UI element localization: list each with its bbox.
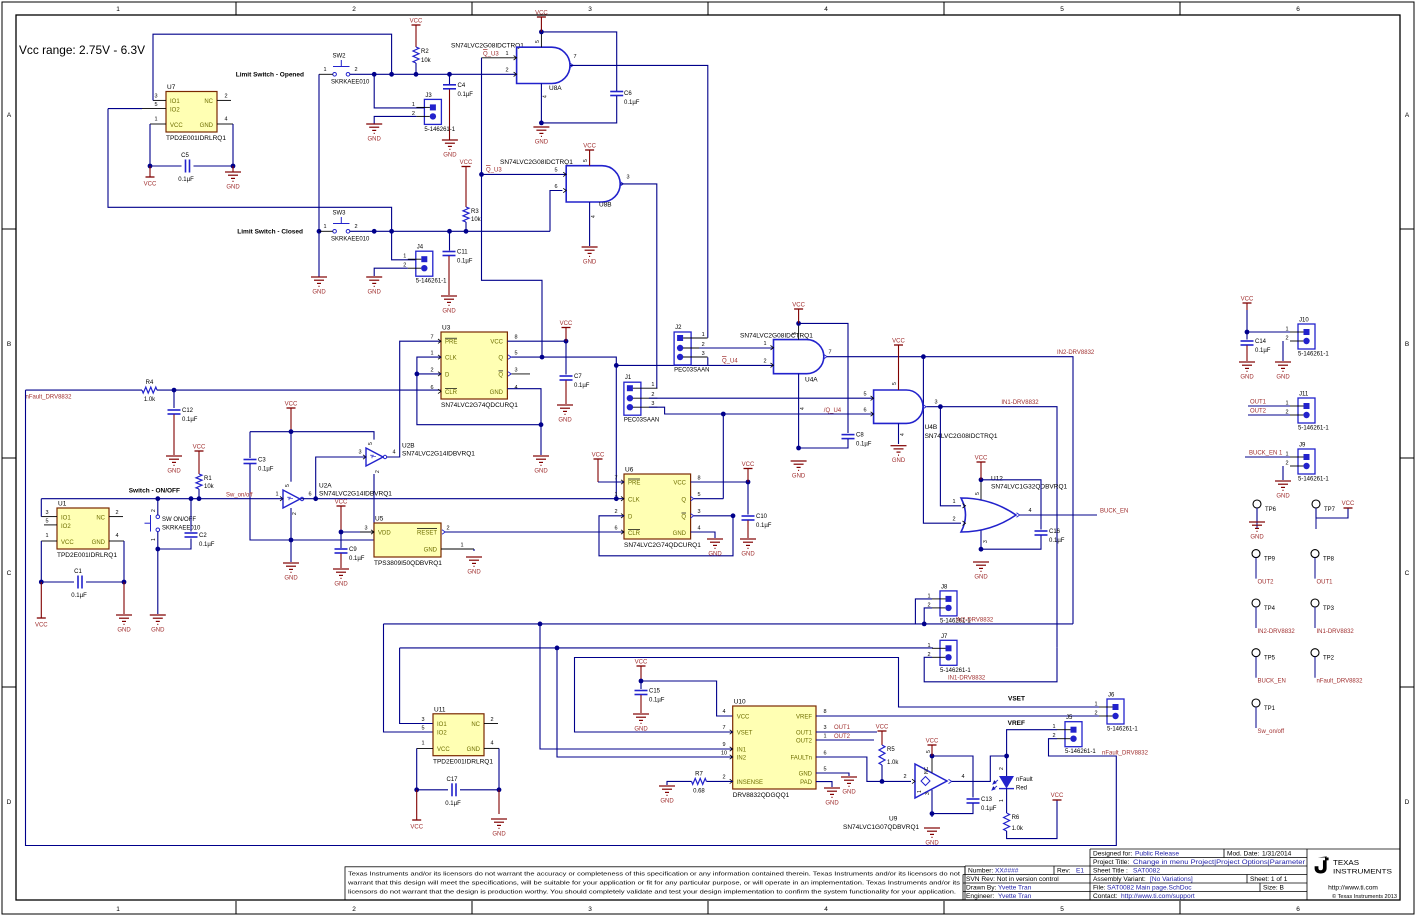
VCC below C17 (412, 819, 421, 821)
svg-text:GND: GND (334, 582, 348, 588)
svg-text:GND: GND (535, 140, 549, 146)
capacitor C2 (185, 533, 198, 537)
svg-text:0.1µF: 0.1µF (574, 383, 590, 389)
svg-text:2: 2 (1285, 336, 1288, 342)
svg-text:U10: U10 (734, 699, 746, 706)
svg-text:Sw_on/off: Sw_on/off (1258, 729, 1285, 735)
wire IN1-DRV8832 (927, 407, 1058, 648)
wire OUT1 to J11 (1248, 405, 1290, 407)
svg-text:Designed for:: Designed for: (1093, 851, 1132, 858)
VCC (337, 505, 346, 507)
resistor R2 (413, 47, 419, 63)
ground at TP6 (1249, 522, 1265, 531)
svg-text:Public Release: Public Release (1135, 851, 1179, 858)
wire VCC to U10 VCC pin (641, 681, 733, 716)
svg-text:C7: C7 (574, 374, 582, 380)
VCC above U8B (585, 149, 594, 151)
VCC at TP7 (1344, 507, 1353, 509)
svg-text:Limit Switch - Opened: Limit Switch - Opened (236, 72, 304, 79)
resistor R3 (463, 207, 469, 222)
junction (155, 496, 160, 501)
svg-text:J4: J4 (417, 245, 424, 251)
ground at C1 (116, 615, 132, 624)
svg-text:4: 4 (490, 741, 493, 747)
svg-text:1: 1 (275, 492, 278, 498)
svg-text:Project Title:: Project Title: (1093, 859, 1129, 866)
svg-text:TP6: TP6 (1265, 507, 1277, 513)
wire R7 to gnd (667, 781, 692, 785)
wire C16 to gnd rail (981, 536, 1041, 550)
wire LED cathode to R6 (1006, 789, 1008, 813)
wire C1 right (86, 581, 124, 583)
junction (930, 811, 935, 816)
junction (189, 496, 194, 501)
svg-text:6: 6 (823, 751, 826, 757)
wire J8 pin1 down (915, 599, 932, 624)
wire R5 bottom (881, 765, 883, 781)
svg-text:10: 10 (721, 751, 727, 757)
svg-text:SN74LVC2G14IDBVRQ1: SN74LVC2G14IDBVRQ1 (402, 451, 475, 458)
svg-text:2: 2 (490, 717, 493, 723)
svg-text:A: A (1405, 112, 1410, 119)
svg-text:GND: GND (200, 123, 214, 129)
test point TP4 (1252, 599, 1260, 607)
svg-text:5-146261-1: 5-146261-1 (940, 668, 971, 674)
capacitor C9 (335, 549, 348, 553)
wire SW2 pin1 down to SW3 pin1 (318, 74, 320, 231)
svg-text:Switch - ON/OFF: Switch - ON/OFF (129, 488, 180, 495)
svg-text:Sw_on/off: Sw_on/off (226, 493, 253, 499)
svg-text:NC: NC (96, 516, 105, 522)
svg-text:IO2: IO2 (170, 108, 180, 114)
svg-text:C5: C5 (181, 153, 189, 159)
wire U6 Q vertical (722, 414, 724, 499)
svg-text:J8: J8 (941, 584, 948, 590)
test point TP9 (1252, 550, 1260, 558)
VCC above U8A (537, 16, 546, 18)
VCC at C10 (744, 468, 753, 470)
svg-text:4: 4 (722, 709, 725, 715)
wire VSET to J6 pin1 (575, 658, 1100, 733)
svg-text:Mod. Date:: Mod. Date: (1227, 851, 1259, 858)
wire C3 top (249, 432, 251, 458)
svg-text:6: 6 (1296, 6, 1300, 13)
svg-text:Sheet: 1 of 1: Sheet: 1 of 1 (1250, 876, 1288, 883)
junction (1004, 754, 1009, 759)
junction (746, 480, 751, 485)
ground at U8A (533, 127, 549, 136)
svg-text:5: 5 (1060, 6, 1064, 13)
ground at U5 (466, 557, 482, 566)
wire U3 clk-d-gnd loop (417, 357, 541, 425)
wire J1.2 to U4B.5 (649, 397, 874, 399)
U7 pin stubs (142, 100, 233, 124)
svg-text:0.1µF: 0.1µF (624, 100, 640, 106)
junction (155, 547, 160, 552)
IC U5 (374, 523, 441, 557)
wire to C14 (1246, 332, 1248, 340)
svg-text:Limit Switch - Closed: Limit Switch - Closed (237, 229, 303, 236)
svg-text:CLK: CLK (445, 356, 457, 362)
svg-text:C2: C2 (199, 533, 207, 539)
svg-text:3: 3 (702, 351, 705, 357)
svg-text:U6: U6 (625, 467, 634, 474)
AND gate U8B (566, 166, 620, 202)
wire long row IN1 net (400, 647, 933, 649)
wire C1 to gnd (123, 582, 125, 614)
svg-text:OUT1: OUT1 (1250, 400, 1267, 406)
svg-text:GND: GND (792, 474, 806, 480)
TI logo (1315, 856, 1329, 873)
svg-text:J5: J5 (1066, 715, 1073, 721)
svg-text:INSTRUMENTS: INSTRUMENTS (1333, 869, 1392, 876)
wire C17 right (460, 789, 499, 791)
wire U5 GND down (473, 549, 475, 551)
svg-text:0.1µF: 0.1µF (756, 523, 772, 529)
connector J11 (1298, 398, 1315, 423)
svg-text:D: D (445, 372, 450, 378)
svg-text:3: 3 (154, 94, 157, 100)
svg-text:5-146261-1: 5-146261-1 (1298, 426, 1329, 432)
svg-text:C15: C15 (649, 689, 661, 695)
ground at C17 (491, 819, 507, 828)
svg-text:0.1µF: 0.1µF (458, 92, 474, 98)
IC U1 (57, 508, 109, 549)
AND gate U4A (774, 340, 824, 374)
capacitor C7 (560, 376, 573, 380)
wire R6 to VCC (1007, 800, 1057, 839)
test point TP2 (1311, 649, 1319, 657)
svg-text:3: 3 (588, 6, 592, 13)
svg-text:U5: U5 (375, 516, 384, 523)
svg-text:SKRKAEE010: SKRKAEE010 (331, 80, 370, 86)
wire U11 GND to C17 (498, 748, 500, 789)
OR gate U12 (961, 498, 1016, 532)
wire OUT2 to J11 (1248, 414, 1290, 416)
capacitor C12 (168, 410, 181, 414)
svg-text:Q: Q (681, 498, 686, 504)
svg-text:U1: U1 (58, 501, 67, 508)
svg-text:GND: GND (442, 309, 456, 315)
wire Q_U4 vertical (615, 365, 617, 498)
svg-text:OUT2: OUT2 (834, 734, 851, 740)
ground at U10 GND (841, 777, 857, 786)
svg-text:5: 5 (421, 726, 424, 732)
svg-text:1.0k: 1.0k (144, 397, 156, 403)
VCC (878, 730, 887, 732)
svg-text:GND: GND (368, 137, 382, 143)
svg-text:IO2: IO2 (61, 524, 71, 530)
svg-text:TP7: TP7 (1324, 507, 1336, 513)
capacitor C17 (452, 783, 456, 796)
svg-text:3: 3 (651, 401, 654, 407)
svg-text:4: 4 (591, 215, 597, 218)
svg-text:IO1: IO1 (437, 722, 447, 728)
svg-text:1.0k: 1.0k (1012, 826, 1024, 832)
svg-text:C: C (1405, 570, 1410, 577)
svg-text:0.1µF: 0.1µF (178, 177, 194, 183)
junction (564, 339, 569, 344)
junction (447, 72, 452, 77)
svg-text:TEXAS: TEXAS (1333, 860, 1359, 867)
svg-text:1: 1 (430, 351, 433, 357)
svg-text:4: 4 (224, 117, 227, 123)
svg-text:4: 4 (900, 433, 906, 436)
svg-text:4: 4 (392, 450, 395, 456)
svg-text:SN74LVC2G14IDBVRQ1: SN74LVC2G14IDBVRQ1 (319, 491, 392, 498)
svg-text:4: 4 (543, 95, 549, 98)
VCC above U12 (977, 461, 986, 463)
junction (930, 754, 935, 759)
junction (721, 412, 726, 417)
svg-text:Yvette Tran: Yvette Tran (998, 885, 1032, 892)
wire R1 to row (198, 489, 200, 499)
ground at SW (150, 615, 166, 624)
VCC at C5 (146, 176, 155, 178)
svg-text:VSET: VSET (1008, 696, 1025, 703)
wire U6 VCC to C10 (691, 481, 748, 483)
ground at C14 (1239, 362, 1255, 371)
wire to U10 IN2 (557, 648, 733, 757)
svg-text:SKRKAEE010: SKRKAEE010 (162, 526, 201, 532)
svg-text:TP9: TP9 (1264, 557, 1276, 563)
svg-text:File:: File: (1093, 885, 1106, 892)
junction (172, 388, 177, 393)
wire sw_on/off row (41, 498, 283, 500)
ground at J4 (366, 277, 382, 286)
svg-text:SW2: SW2 (333, 54, 347, 60)
svg-text:NC: NC (204, 99, 213, 105)
svg-text:VCC: VCC (876, 725, 889, 731)
ground at C15 (633, 714, 649, 723)
wire VCC to U5 VDD (341, 531, 374, 533)
svg-text:7: 7 (573, 54, 576, 60)
wire TP7 to VCC (1316, 508, 1348, 518)
svg-text:2: 2 (505, 68, 508, 74)
svg-text:CLR: CLR (628, 531, 641, 537)
svg-text:NC: NC (924, 766, 930, 774)
resistor R5 (879, 745, 885, 765)
wire U3 Q to J2 pin3 (512, 357, 708, 365)
svg-text:GND: GND (673, 531, 687, 537)
svg-text:SN74LVC2G08IDCTRQ1: SN74LVC2G08IDCTRQ1 (500, 159, 573, 166)
svg-text:0.1µF: 0.1µF (457, 259, 473, 265)
wire row to C4 (449, 74, 451, 84)
svg-text:E1: E1 (1076, 868, 1084, 875)
svg-text:INSENSE: INSENSE (737, 780, 763, 786)
svg-text:R2: R2 (421, 49, 429, 55)
svg-text:3: 3 (421, 717, 424, 723)
svg-text:5: 5 (583, 159, 589, 162)
svg-text:4: 4 (514, 385, 517, 391)
svg-text:TP4: TP4 (1264, 606, 1276, 612)
junction (979, 547, 984, 552)
svg-text:5: 5 (823, 767, 826, 773)
junction (339, 530, 344, 535)
ground at C5 (225, 172, 241, 181)
svg-text:J2: J2 (675, 325, 682, 331)
svg-text:6: 6 (1296, 906, 1300, 913)
wire VREF to J6 pin2 (816, 715, 1099, 717)
svg-text:C6: C6 (624, 91, 632, 97)
wire U6 Q out (694, 498, 723, 500)
svg-text:GND: GND (226, 185, 240, 191)
svg-text:SW3: SW3 (333, 211, 347, 217)
svg-text:TPS3809I50QDBVRQ1: TPS3809I50QDBVRQ1 (374, 560, 442, 567)
svg-text:OUT1: OUT1 (834, 725, 851, 731)
svg-text:Texas Instruments and/or its l: Texas Instruments and/or its licensors d… (348, 872, 961, 878)
capacitor C14 (1241, 341, 1254, 345)
svg-text:warrant that this design will: warrant that this design will meet the s… (347, 881, 961, 887)
connector J4 (416, 251, 433, 276)
svg-text:GND: GND (1276, 494, 1290, 500)
test point TP8 (1311, 550, 1319, 558)
svg-text:J10: J10 (1299, 318, 1309, 324)
test point TP1 (1252, 699, 1260, 707)
junction (317, 229, 322, 234)
wire U2A out up to U2B in (316, 457, 366, 499)
svg-text:nFault_DRV8832: nFault_DRV8832 (26, 395, 73, 401)
wire U7 pin3 to SW2 net (153, 34, 392, 100)
VCC at C7 (562, 327, 571, 329)
U1 pin stubs (41, 517, 124, 541)
title block (963, 849, 1400, 900)
svg-text:GND: GND (167, 469, 181, 475)
wire SW2 row to U8A (350, 73, 517, 75)
svg-text:U8B: U8B (599, 202, 612, 209)
wire C5 right (194, 165, 234, 167)
svg-text:IN2-DRV8832: IN2-DRV8832 (1057, 350, 1095, 356)
svg-text:C16: C16 (1049, 529, 1061, 535)
svg-text:1: 1 (1285, 327, 1288, 333)
svg-text:Number:: Number: (968, 868, 993, 875)
connector J10 (1298, 324, 1315, 349)
svg-text:5-146261-1: 5-146261-1 (1298, 477, 1329, 483)
svg-text:GND: GND (117, 628, 131, 634)
svg-text:GND: GND (741, 552, 755, 558)
svg-text:2: 2 (952, 517, 955, 523)
wire to C7 (565, 341, 567, 374)
VCC (594, 458, 603, 460)
wire nFault_DRV8832 loop (26, 390, 1117, 845)
svg-text:D: D (7, 799, 12, 806)
ground at U9 (924, 828, 940, 837)
ground at U8B (582, 247, 598, 256)
svg-text:SN74LVC1G07QDBVRQ1: SN74LVC1G07QDBVRQ1 (843, 824, 919, 831)
wire U2A bottom power (290, 508, 292, 540)
wire J2.2 to U4A.1 (699, 347, 773, 349)
wire U10 pad stub (816, 782, 832, 787)
svg-text:C11: C11 (457, 250, 468, 256)
svg-text:2: 2 (1285, 461, 1288, 467)
svg-text:2: 2 (352, 6, 356, 13)
svg-text:1.0k: 1.0k (887, 760, 899, 766)
wire to C10 (747, 482, 749, 515)
svg-text:0.1µF: 0.1µF (856, 442, 872, 448)
svg-text:5-146261-1: 5-146261-1 (1298, 352, 1329, 358)
svg-text:C14: C14 (1255, 339, 1267, 345)
ground at C7 (557, 405, 573, 414)
wire SW3 pin1 to gnd (318, 231, 320, 277)
U3 pin arrows (438, 339, 441, 343)
svg-text:1: 1 (1052, 724, 1055, 730)
svg-text:TP1: TP1 (1264, 706, 1276, 712)
svg-text:R3: R3 (471, 209, 479, 215)
svg-text:IO2: IO2 (437, 731, 447, 737)
svg-text:U9: U9 (889, 816, 898, 823)
svg-text:10k: 10k (204, 484, 215, 490)
svg-text:5: 5 (154, 102, 157, 108)
svg-text:5: 5 (535, 40, 541, 43)
svg-text:SN74LVC2G74QDCURQ1: SN74LVC2G74QDCURQ1 (441, 402, 518, 409)
svg-text:3: 3 (934, 400, 937, 406)
svg-text:2: 2 (903, 774, 906, 780)
svg-text:VCC: VCC (35, 623, 48, 629)
svg-text:1: 1 (763, 341, 766, 347)
inverter U2A (283, 490, 300, 508)
capacitor C5 (186, 160, 190, 173)
svg-text:4: 4 (1028, 508, 1031, 514)
svg-text:1: 1 (702, 332, 705, 338)
svg-text:5: 5 (863, 392, 866, 398)
VCC (287, 407, 296, 409)
U9 power pins (931, 756, 933, 773)
svg-text:SN74LVC2G08IDCTRQ1: SN74LVC2G08IDCTRQ1 (925, 433, 998, 440)
svg-text:1: 1 (403, 254, 406, 260)
junction (796, 446, 801, 451)
svg-text:R6: R6 (1012, 815, 1020, 821)
svg-text:Change in menu Project|Project: Change in menu Project|Project Options|P… (1133, 859, 1306, 866)
test point TP3 (1311, 599, 1319, 607)
junction (197, 496, 202, 501)
IC U6 (624, 474, 691, 539)
svg-text:VCC: VCC (975, 456, 988, 462)
VCC (462, 166, 471, 168)
svg-text:8: 8 (514, 335, 517, 341)
wire C9 to gnd (340, 554, 342, 569)
svg-text:Rev:: Rev: (1057, 868, 1071, 875)
svg-text:VCC: VCC (193, 445, 206, 451)
switch SW ON/OFF (145, 515, 160, 532)
svg-text:VCC: VCC (1241, 297, 1254, 303)
wire to J4 pin1 (392, 231, 416, 259)
svg-text:0.1µF: 0.1µF (349, 556, 365, 562)
wire R2 to row (415, 63, 417, 74)
capacitor C6 (610, 92, 623, 96)
svg-text:PAD: PAD (800, 780, 813, 786)
svg-text:SAT0082 Main page.SchDoc: SAT0082 Main page.SchDoc (1107, 885, 1192, 892)
svg-text:Size: B: Size: B (1263, 885, 1284, 892)
test point TP5 (1252, 649, 1260, 657)
svg-text:TPD2E001IDRLRQ1: TPD2E001IDRLRQ1 (166, 135, 226, 142)
svg-text:VSET: VSET (737, 731, 753, 737)
svg-text:J1: J1 (625, 375, 632, 381)
wire U2 vcc rail (250, 432, 374, 440)
svg-text:VCC: VCC (892, 339, 905, 345)
svg-text:0.1µF: 0.1µF (182, 417, 198, 423)
wire to U10 IN1 (540, 624, 733, 749)
wire LED anode (1006, 756, 1008, 776)
svg-text:1: 1 (421, 741, 424, 747)
IC U10 (733, 706, 816, 789)
svg-text:OUT2: OUT2 (796, 739, 813, 745)
ground at U2A (283, 563, 299, 572)
wire row to C11 (449, 231, 451, 250)
svg-text:BUCK_EN 1: BUCK_EN 1 (1249, 451, 1283, 457)
svg-text:GND: GND (842, 790, 856, 796)
wire U6 gnd stub (691, 532, 715, 538)
svg-text:R5: R5 (887, 747, 895, 753)
